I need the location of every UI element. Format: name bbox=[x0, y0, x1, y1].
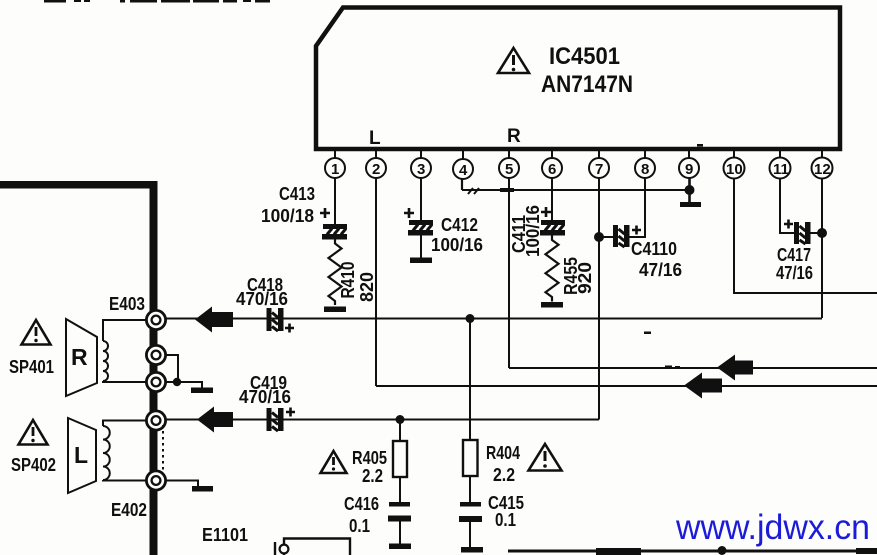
terminal bar under C416 bbox=[389, 544, 411, 550]
svg-text:8: 8 bbox=[641, 161, 649, 178]
thick chassis wire vertical bbox=[150, 181, 158, 555]
feed line to R405 bbox=[399, 420, 401, 442]
R output wire (E403 to pin12) bbox=[157, 318, 822, 320]
wire R404 to C415 bbox=[469, 476, 471, 503]
capacitor C417 (electrolytic, hatched, vertical plates) bbox=[794, 222, 811, 244]
capacitor C411 (electrolytic, hatched) bbox=[540, 220, 565, 236]
plus mark C418 bbox=[285, 324, 294, 333]
wire pin5 down bbox=[508, 178, 510, 368]
slash ticks on ground bus bbox=[468, 188, 479, 194]
wire pin12 down to R output wire bbox=[821, 178, 823, 318]
wire C417 to pin12 bbox=[811, 232, 823, 234]
bottom bus right end bbox=[856, 548, 877, 554]
terminal bar under R410 bbox=[324, 307, 346, 313]
svg-text:www.jdwx.cn: www.jdwx.cn bbox=[675, 508, 870, 547]
signal arrow on L output wire bbox=[197, 407, 233, 433]
wire C412 to bar bbox=[420, 236, 422, 259]
svg-text:3: 3 bbox=[417, 161, 425, 178]
svg-text:920: 920 bbox=[575, 262, 595, 294]
junction speaker R ground bbox=[173, 378, 181, 386]
svg-text:10: 10 bbox=[726, 161, 743, 178]
svg-text:E403: E403 bbox=[109, 294, 145, 314]
svg-text:100/18: 100/18 bbox=[261, 206, 314, 226]
svg-text:L: L bbox=[74, 442, 88, 468]
svg-text:SP401: SP401 bbox=[9, 357, 54, 377]
warning triangle near R404 bbox=[529, 444, 562, 471]
wire pin3 to C412 bbox=[420, 178, 422, 221]
terminal R bottom bbox=[146, 372, 165, 391]
pin 11 bbox=[770, 151, 791, 179]
bottom bus thick segment bbox=[596, 548, 641, 555]
pin 8 bbox=[635, 151, 655, 178]
pin 10 bbox=[724, 151, 745, 179]
resistor R455 zigzag bbox=[546, 236, 559, 302]
wire pin11 to C417 bbox=[780, 178, 794, 233]
terminal E402 bottom bbox=[146, 471, 165, 490]
svg-text:820: 820 bbox=[357, 272, 377, 302]
svg-text:47/16: 47/16 bbox=[639, 260, 682, 280]
plus mark C412 bbox=[404, 208, 414, 218]
pin 5 bbox=[499, 151, 519, 178]
pin 2 bbox=[366, 151, 386, 178]
wire pin2 net to right edge bbox=[376, 385, 877, 387]
svg-text:R: R bbox=[507, 126, 521, 147]
svg-text:R: R bbox=[71, 344, 88, 370]
junction C417 / pin12 bbox=[817, 228, 827, 238]
svg-text:11: 11 bbox=[773, 161, 789, 178]
wire terminal R mid down bbox=[165, 355, 178, 380]
warning triangle inside IC bbox=[498, 48, 529, 73]
terminal E402 top bbox=[146, 411, 165, 430]
terminal bar under C412 bbox=[410, 258, 432, 264]
junction at pin9 ground bbox=[685, 185, 695, 195]
thickening at pin5 crossing bbox=[500, 188, 514, 192]
svg-text:2.2: 2.2 bbox=[362, 466, 383, 486]
svg-text:C417: C417 bbox=[777, 245, 811, 265]
svg-text:E1101: E1101 bbox=[202, 525, 248, 545]
svg-text:470/16: 470/16 bbox=[239, 387, 291, 407]
wire pin7 down to L output wire bbox=[598, 178, 600, 420]
wire pin5 net to right edge bbox=[509, 367, 877, 369]
wire R405 to C416 bbox=[399, 477, 401, 503]
speaker SP402 coil bbox=[103, 426, 110, 480]
resistor R404 bbox=[463, 440, 478, 476]
svg-text:5: 5 bbox=[505, 161, 513, 178]
wire pin2 down bbox=[375, 178, 377, 386]
svg-text:100/16: 100/16 bbox=[431, 235, 483, 255]
stray scan mark on pin5 net 2 bbox=[675, 366, 680, 369]
resistor R405 bbox=[393, 441, 407, 477]
svg-text:C412: C412 bbox=[441, 215, 478, 235]
svg-text:E402: E402 bbox=[111, 500, 147, 520]
dotted fold line bbox=[162, 425, 164, 472]
capacitor C415 bbox=[459, 502, 482, 522]
plus mark C4110 bbox=[632, 226, 641, 235]
svg-text:6: 6 bbox=[548, 161, 556, 178]
svg-text:L: L bbox=[369, 128, 381, 149]
wire terminal E402 bottom to ground bbox=[165, 481, 198, 487]
svg-text:12: 12 bbox=[814, 161, 831, 178]
svg-text:R410: R410 bbox=[338, 262, 358, 299]
svg-text:0.1: 0.1 bbox=[349, 516, 370, 536]
wire pin10 down and right bbox=[734, 178, 877, 293]
svg-text:4: 4 bbox=[459, 162, 468, 179]
speaker SP401 coil bbox=[103, 341, 108, 381]
ground bus wire pin4 to pin9 bbox=[462, 189, 689, 191]
stray scan mark bbox=[697, 144, 703, 147]
terminal R mid bbox=[146, 345, 165, 364]
junction pin7 / C4110 bbox=[594, 232, 604, 242]
svg-text:1: 1 bbox=[331, 161, 339, 178]
plus mark C419 bbox=[286, 408, 295, 417]
capacitor C416 bbox=[388, 502, 411, 522]
wire C415 to bar bbox=[469, 522, 471, 548]
ground bar speaker R bbox=[191, 388, 213, 394]
wire junction to C4110 bbox=[599, 236, 613, 238]
svg-text:C4110: C4110 bbox=[631, 239, 677, 259]
plus mark C411 bbox=[541, 207, 551, 217]
terminal bar under R455 bbox=[541, 302, 563, 308]
feed line to R404 bbox=[469, 319, 471, 441]
connector E1101 pin circle bbox=[280, 545, 289, 554]
IC U4501 body bbox=[316, 8, 840, 150]
pin 1 bbox=[325, 151, 345, 178]
capacitor C413 (electrolytic, hatched) bbox=[322, 224, 347, 240]
ground symbol pin9 bbox=[680, 202, 701, 207]
svg-text:0.1: 0.1 bbox=[495, 510, 516, 530]
svg-text:9: 9 bbox=[685, 161, 693, 178]
speaker SP401 cone bbox=[66, 319, 97, 396]
signal arrow on R output wire bbox=[195, 307, 233, 333]
plus mark C413 bbox=[320, 208, 330, 218]
scan text remnants along top edge bbox=[44, 0, 270, 3]
plus mark C417 bbox=[784, 220, 793, 229]
bottom bus junction dot bbox=[718, 546, 727, 555]
resistor R410 zigzag bbox=[329, 240, 342, 306]
svg-text:SP402: SP402 bbox=[11, 455, 56, 475]
svg-text:AN7147N: AN7147N bbox=[541, 71, 633, 98]
svg-text:47/16: 47/16 bbox=[776, 263, 813, 283]
wire pin4 to ground bus bbox=[461, 178, 463, 190]
warning triangle SP401 bbox=[22, 320, 51, 345]
junction R404 feed bbox=[466, 314, 475, 323]
pin 12 bbox=[812, 151, 833, 179]
wire pin1 to C413 bbox=[334, 178, 336, 225]
svg-text:2.2: 2.2 bbox=[493, 465, 515, 485]
wire pin9 stub bbox=[688, 178, 691, 203]
wire coil top to E403 bbox=[103, 320, 147, 341]
signal arrow on pin2 net bbox=[684, 373, 722, 399]
bottom bus wire bbox=[508, 550, 877, 553]
warning triangle near R405 bbox=[321, 451, 347, 473]
svg-text:2: 2 bbox=[372, 161, 380, 178]
svg-text:470/16: 470/16 bbox=[236, 289, 288, 309]
stray scan mark on pin5 net bbox=[665, 366, 672, 369]
wire coil top to E402 bbox=[103, 421, 147, 427]
capacitor C4110 (electrolytic, hatched, vertical plates) bbox=[613, 225, 630, 247]
wire C416 to bar bbox=[399, 522, 401, 545]
pin 4 bbox=[453, 151, 473, 179]
svg-text:C413: C413 bbox=[279, 184, 315, 204]
terminal bar under C415 bbox=[461, 547, 483, 553]
svg-text:C416: C416 bbox=[344, 494, 379, 514]
signal arrow on pin5 net bbox=[717, 355, 753, 381]
ground bar speaker L bbox=[192, 486, 213, 492]
wire coil bottom to terminal bbox=[103, 381, 147, 382]
stray scan mark near pin7 line bbox=[644, 332, 651, 335]
connector E1101 box bbox=[284, 539, 350, 555]
pin 9 bbox=[679, 151, 699, 178]
pin 3 bbox=[411, 151, 431, 178]
thick chassis wire top-left horizontal bbox=[0, 181, 157, 189]
svg-text:IC4501: IC4501 bbox=[549, 43, 620, 70]
wire coil bottom to terminal bbox=[103, 479, 147, 482]
wire terminal R bottom to ground bbox=[165, 382, 202, 388]
svg-text:R404: R404 bbox=[486, 443, 520, 463]
pin 7 bbox=[589, 151, 609, 178]
svg-text:R405: R405 bbox=[352, 448, 387, 468]
wire C4110 to pin8 bbox=[630, 178, 646, 237]
capacitor C419 (electrolytic, hatched, vertical plates) bbox=[267, 408, 284, 431]
pin 6 bbox=[542, 151, 562, 178]
wire pin6 to C411 bbox=[551, 178, 553, 221]
capacitor C418 (electrolytic, hatched, vertical plates) bbox=[267, 308, 284, 331]
terminal E403 top bbox=[146, 310, 165, 329]
warning triangle SP402 bbox=[19, 420, 48, 445]
L output wire (E402 to pin7) bbox=[157, 419, 599, 421]
junction R405 feed bbox=[396, 415, 405, 424]
svg-text:7: 7 bbox=[595, 161, 603, 178]
speaker SP402 cone bbox=[68, 418, 96, 493]
capacitor C412 (electrolytic, hatched) bbox=[408, 220, 433, 236]
